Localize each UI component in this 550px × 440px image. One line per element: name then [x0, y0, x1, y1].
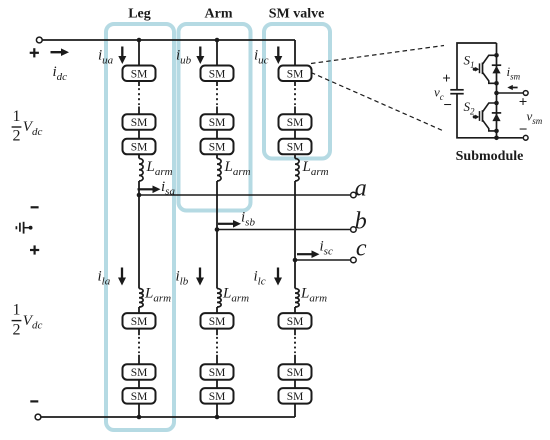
- wire bottom DC bus: [41, 416, 295, 418]
- wire leg1 dots to upper SM2: [138, 107, 140, 116]
- wire leg1 top bus to upper SM stack: [138, 40, 140, 66]
- wire leg2 lower inductor to SM stack: [216, 307, 218, 314]
- wire submodule mid output: [497, 92, 523, 94]
- transistor S1 IGBT: [473, 55, 497, 83]
- wire leg2 lower dotted continuation: [216, 338, 218, 353]
- inductor Larm leg3 lower: [295, 289, 299, 308]
- SM module leg1 upper 1: [123, 66, 156, 82]
- svg-text:−: −: [519, 122, 528, 138]
- label half Vdc lower: [12, 302, 43, 339]
- wire leg3 dots to lower SM2: [294, 355, 296, 365]
- terminal phase a open circle: [351, 192, 357, 198]
- label minus bottom-left: [30, 400, 38, 402]
- wire leg3 lower SM2 to SM3: [294, 380, 296, 389]
- wire leg1 lower SM3 to bottom bus: [138, 404, 140, 417]
- svg-text:+: +: [442, 71, 451, 87]
- SM module leg2 upper 2: [201, 114, 234, 130]
- wire leg1 upper SM3 to arm inductor: [138, 154, 140, 158]
- wire leg2 upper SM1 to dots: [216, 81, 218, 86]
- Leg highlight box: [106, 24, 174, 430]
- wire leg3 lower SM3 to bottom bus: [294, 404, 296, 417]
- SM module leg3 upper 1: [279, 66, 312, 82]
- svg-text:SM: SM: [287, 117, 304, 129]
- node submodule bottom corner: [494, 136, 499, 141]
- svg-text:−: −: [443, 98, 452, 114]
- svg-text:SM: SM: [287, 142, 304, 154]
- node S1 top: [494, 53, 499, 58]
- SM module leg3 lower 1: [279, 313, 312, 329]
- svg-text:SM: SM: [131, 391, 148, 403]
- svg-text:SM: SM: [209, 117, 226, 129]
- arrow iua: [118, 47, 126, 65]
- node top bus leg2 junction: [215, 38, 220, 43]
- capacitor vc: [450, 90, 463, 94]
- node leg2 phase b junction: [215, 227, 220, 232]
- ground symbol: [16, 222, 32, 234]
- wire phase c output: [295, 259, 351, 261]
- wire leg3 upper SM3 to arm inductor: [294, 154, 296, 158]
- SM module leg1 lower 1: [123, 313, 156, 329]
- wire leg2 upper dotted continuation: [216, 89, 218, 104]
- svg-text:SM: SM: [287, 68, 304, 80]
- transistor S2 IGBT: [473, 103, 497, 131]
- SM module leg2 lower 1: [201, 313, 234, 329]
- svg-text:a: a: [355, 176, 367, 202]
- wire leg3 upper SM2 to SM3: [294, 130, 296, 140]
- SM module leg2 upper 1: [201, 66, 234, 82]
- wire leg1 lower dotted continuation: [138, 338, 140, 353]
- wire leg2 lower SM3 to bottom bus: [216, 404, 218, 417]
- arrow idc: [51, 48, 70, 56]
- wire leg2 lower SM1 to dots: [216, 329, 218, 336]
- arrow ilc: [274, 268, 282, 286]
- SM module leg1 upper 2: [123, 114, 156, 130]
- node submodule mid output: [494, 91, 499, 96]
- wire leg3 lower dotted continuation: [294, 338, 296, 353]
- wire leg3 lower SM1 to dots: [294, 329, 296, 336]
- terminal submodule bottom open circle: [523, 135, 528, 140]
- wire leg2 dots to lower SM2: [216, 355, 218, 365]
- terminal submodule mid open circle: [523, 91, 528, 96]
- inductor Larm leg3 upper: [295, 159, 299, 182]
- wire leg3 dots to upper SM2: [294, 107, 296, 116]
- label plus mid-left lower: [30, 245, 39, 254]
- SM module leg3 upper 2: [279, 114, 312, 130]
- svg-text:SM: SM: [131, 142, 148, 154]
- node S2 bottom: [494, 129, 499, 134]
- svg-text:SM: SM: [287, 391, 304, 403]
- arrow isb: [218, 220, 241, 228]
- wire leg1 midsection upper inductor to lower inductor: [138, 181, 140, 289]
- wire leg1 lower SM1 to dots: [138, 329, 140, 336]
- svg-text:b: b: [355, 209, 367, 235]
- svg-text:2: 2: [13, 128, 21, 145]
- Arm highlight box: [179, 24, 251, 211]
- svg-text:SM: SM: [209, 391, 226, 403]
- node top bus leg1 junction: [137, 38, 142, 43]
- svg-text:SM: SM: [131, 117, 148, 129]
- wire leg1 dots to lower SM2: [138, 355, 140, 365]
- svg-text:SM: SM: [287, 316, 304, 328]
- wire top DC bus: [42, 39, 295, 41]
- SM module leg3 lower 2: [279, 364, 312, 380]
- SM valve highlight box: [264, 24, 330, 159]
- svg-text:SM: SM: [131, 68, 148, 80]
- terminal phase c open circle: [351, 257, 357, 263]
- terminal phase b open circle: [351, 227, 357, 233]
- label plus top-left: [30, 48, 39, 57]
- svg-text:SM: SM: [209, 367, 226, 379]
- inductor Larm leg1 upper: [139, 159, 143, 182]
- node leg1 phase a junction: [137, 193, 142, 198]
- arrow isa: [138, 186, 161, 194]
- arrow ila: [118, 268, 126, 286]
- wire leg3 upper dotted continuation: [294, 89, 296, 104]
- label half Vdc upper: [12, 108, 43, 145]
- wire leg3 midsection upper inductor to lower inductor: [294, 181, 296, 289]
- wire leg3 upper SM1 to dots: [294, 81, 296, 86]
- inductor Larm leg1 lower: [139, 289, 143, 308]
- svg-text:Leg: Leg: [128, 7, 151, 22]
- svg-text:1: 1: [13, 108, 21, 125]
- SM module leg1 lower 2: [123, 364, 156, 380]
- wire dashed leader upper: [311, 46, 444, 64]
- inductor Larm leg2 lower: [217, 289, 221, 308]
- SM module leg3 upper 3: [279, 139, 312, 155]
- wire leg2 dots to upper SM2: [216, 107, 218, 116]
- svg-text:c: c: [356, 236, 367, 262]
- node S1 bottom: [494, 81, 499, 86]
- svg-text:SM: SM: [287, 367, 304, 379]
- svg-text:SM: SM: [209, 142, 226, 154]
- wire leg1 lower inductor to SM stack: [138, 307, 140, 314]
- wire phase a output: [139, 194, 351, 196]
- wire leg2 midsection upper inductor to lower inductor: [216, 181, 218, 289]
- SM module leg1 lower 3: [123, 388, 156, 404]
- node S2 top: [494, 101, 499, 106]
- SM module leg2 lower 2: [201, 364, 234, 380]
- SM module leg2 lower 3: [201, 388, 234, 404]
- SM module leg1 upper 3: [123, 139, 156, 155]
- svg-text:1: 1: [13, 302, 21, 319]
- label minus mid-left upper: [31, 206, 39, 208]
- terminal top-left open circle: [36, 37, 42, 43]
- SM module leg2 upper 3: [201, 139, 234, 155]
- svg-text:SM: SM: [131, 316, 148, 328]
- diode D1: [492, 65, 501, 73]
- wire submodule outline left and top: [457, 43, 523, 138]
- wire leg2 upper SM3 to arm inductor: [216, 154, 218, 158]
- wire submodule switch branch: [496, 43, 498, 138]
- arrow ilb: [196, 268, 204, 286]
- wire dashed leader lower: [311, 73, 443, 131]
- inductor Larm leg2 upper: [217, 159, 221, 182]
- node leg3 phase c junction: [293, 258, 298, 263]
- wire phase b output: [217, 229, 351, 231]
- svg-text:SM: SM: [209, 68, 226, 80]
- svg-text:SM valve: SM valve: [269, 7, 325, 22]
- svg-text:2: 2: [13, 321, 21, 338]
- svg-text:SM: SM: [209, 316, 226, 328]
- wire leg1 lower SM2 to SM3: [138, 380, 140, 389]
- svg-text:Submodule: Submodule: [456, 149, 524, 164]
- wire leg1 upper SM2 to SM3: [138, 130, 140, 140]
- wire leg1 upper dotted continuation: [138, 89, 140, 104]
- wire leg2 top bus to upper SM stack: [216, 40, 218, 66]
- wire leg3 lower inductor to SM stack: [294, 307, 296, 314]
- arrow iuc: [274, 47, 282, 65]
- wire leg2 lower SM2 to SM3: [216, 380, 218, 389]
- arrow ism: [507, 85, 517, 90]
- wire leg2 upper SM2 to SM3: [216, 130, 218, 140]
- svg-text:SM: SM: [131, 367, 148, 379]
- arrow iub: [196, 47, 204, 65]
- SM module leg3 lower 3: [279, 388, 312, 404]
- diode D2: [492, 113, 501, 121]
- terminal bottom-left open circle: [35, 414, 41, 420]
- svg-text:Arm: Arm: [205, 7, 233, 22]
- arrow isc: [297, 250, 320, 258]
- wire leg1 upper SM1 to dots: [138, 81, 140, 86]
- node bottom bus leg2 junction: [215, 415, 220, 420]
- node bottom bus leg1 junction: [137, 415, 142, 420]
- wire leg3 top bus to upper SM stack: [294, 40, 296, 66]
